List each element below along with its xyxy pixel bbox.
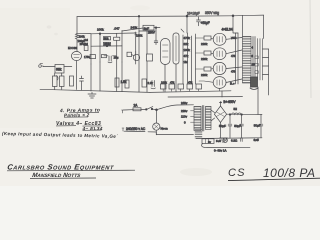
wire: mains live [124,109,134,111]
svg-text:15: 15 [252,62,256,66]
wire: jack hook arrow [57,76,59,81]
svg-text:220k: 220k [201,73,208,77]
wire: V2 stubs [132,51,136,56]
svg-text:6.3Ω: 6.3Ω [231,139,238,143]
capacitor C5 50uF reservoir [187,16,201,33]
resistor R11 4.7k [147,54,153,61]
node: rail junction 2 [232,15,234,17]
capacitor C3 8uF 250V box [143,25,154,30]
resistor R9 500k [114,37,120,40]
svg-text:220k: 220k [201,42,208,46]
scan fold line [310,0,311,98]
transformer T2 heater winding [195,130,202,138]
valve V6 EL34 [213,62,226,74]
wire: coupling vertical x156 [155,28,157,40]
wire: bridge negative to ground [220,122,222,138]
svg-text:.047: .047 [114,27,120,31]
wire: B plus return line [168,96,243,98]
svg-text:100k: 100k [97,28,104,32]
wire: HT centre tap drop [242,15,244,36]
svg-text:175v: 175v [84,55,90,59]
capacitor C4 can [173,33,179,64]
svg-text:470: 470 [231,54,236,58]
svg-text:50μF: 50μF [234,124,241,128]
svg-text:100/8 PA: 100/8 PA [263,166,315,180]
svg-text:ECC83: ECC83 [68,46,77,50]
svg-text:350V wkg: 350V wkg [205,11,219,15]
node: cap drop junction [138,15,140,17]
capacitor C1 cathode bypass [80,76,84,90]
wire: anode bus right [77,32,91,34]
wire: heater drops [226,138,258,142]
svg-text:470: 470 [231,70,236,74]
capacitor C7 50uF vertical [240,115,244,138]
notes handwriting [2,107,118,138]
svg-text:47k: 47k [184,54,189,58]
valve V1 ECC83 input triode [72,51,82,60]
wire: rising lead to primary [157,105,194,110]
svg-text:16+16μF: 16+16μF [187,11,200,15]
terminal: tap lugs [255,56,258,59]
wire: grid network verticals [55,73,62,89]
svg-text:22k: 22k [184,42,189,46]
valve V5 EL34 [213,48,226,60]
resistor R2 68k grid [55,65,64,74]
resistor R8 250k [103,42,110,45]
title: CS 100/8 PA [228,166,315,180]
capacitor C8 coupling [154,40,158,45]
capacitor C2 electrolytic [108,56,112,63]
svg-text:B.+: B.+ [230,82,235,86]
wire: bus vertical D [135,32,137,64]
choke L1 loops [232,113,242,114]
svg-text:6+5: 6+5 [216,139,221,143]
capacitor C9 bypass [151,81,155,89]
svg-text:25μ: 25μ [114,55,119,59]
fuse F1 2A [133,108,141,111]
wire: left ground rail [40,89,150,92]
svg-text:110v: 110v [181,115,188,119]
resistor R16 bias row [196,84,202,89]
output jack block [250,77,258,90]
transformer T2 secondary [206,107,212,128]
resistor R10 1.5k [115,78,119,87]
svg-text:250k: 250k [104,42,111,46]
heater lamp symbol [223,138,227,142]
transformer T1 secondary [258,39,263,81]
resistor R4 [60,76,65,87]
svg-text:220k: 220k [136,33,143,37]
svg-text:50k: 50k [104,37,109,41]
wire: bridge top stub [220,102,222,107]
svg-text:0- 63v 1A: 0- 63v 1A [214,148,226,152]
wire: bridge plus out [227,113,262,115]
capacitor C6 50uF vertical [228,115,232,138]
wire: mains neutral [124,131,194,135]
resistor R15 bias row [187,84,193,89]
resistor R21 mid band [125,80,129,88]
wire: bus vertical B [116,34,118,59]
capacitor C10 50uF vertical [259,115,263,138]
svg-text:240/250 v AC: 240/250 v AC [126,127,146,131]
wire: grid links [196,38,214,82]
wire: ground rail right section [150,91,231,93]
title: Carlsbro Sound Equipment [7,163,115,179]
transformer T1 output primary [243,37,252,83]
wire: drop to ground [139,32,147,92]
wire: stage link [139,30,155,32]
svg-text:6vΦ: 6vΦ [254,138,260,142]
resistor R9b [90,55,96,59]
heater terminal block A [202,139,214,144]
wire: HT secondary to bridge [211,110,215,121]
resistor R13 bias row [169,84,175,89]
valve V2 triode circle [133,54,139,60]
wire: transformer to PSU vertical [257,87,259,114]
wire: output line down [268,49,270,95]
resistor R3 [53,76,58,87]
resistor R9d [127,52,132,56]
wire: vol pot drop [99,34,101,62]
resistor R17 grid stopper [204,36,211,40]
wire: anode to valve [76,39,78,51]
ground: main chevron [88,94,96,98]
transformer T2 mains primary [194,107,201,129]
wire: splitter verticals [165,33,196,92]
wire: HT side drop [263,15,265,38]
wire: fuse to switch [141,108,146,110]
input jack J1 [39,65,42,68]
wire: tap stubs [191,111,195,122]
wire: rail drop right [233,16,238,33]
svg-text:240v: 240v [181,101,188,105]
potentiometer VR1 [84,46,88,51]
svg-text:220k: 220k [201,57,208,61]
svg-text:2.2k: 2.2k [148,81,154,85]
svg-text:Neon: Neon [161,126,169,130]
wire: B+ top rail [77,15,264,17]
resistor R14 bias row [178,84,184,89]
resistor R19 grid stopper [204,67,211,71]
resistor R1 100k anode load zigzag [75,34,78,40]
wire: secondary taps [263,49,269,75]
wire: coupling bus horizontal y46 [91,45,122,47]
rectifier BR1 bridge [214,106,226,122]
switch SW1 [146,109,148,111]
wire: link top [122,16,160,31]
transformer T1 core [253,37,255,84]
resistor R18 grid stopper [204,51,211,55]
mains terminal N [122,128,124,131]
wire: PSU bottom rail [196,137,262,140]
wire: slash mark [181,29,184,32]
svg-text:220v: 220v [181,109,188,113]
neon NE1 pilot [156,110,158,123]
wire: second stage drop [146,31,148,54]
ground: PSU chevron [220,138,228,142]
wire: V1 anode feed drop [76,17,78,34]
mains terminal L [122,110,124,113]
wire: heater hook and bus [202,143,250,147]
resistor R7 50k [103,37,110,40]
valve V4 EL34 [213,33,226,45]
age smudges [180,168,212,176]
wire: bias row stubs [163,88,219,91]
wire: coupling line [104,55,116,57]
svg-text:68k: 68k [56,68,62,72]
wire: V1 grid line [43,66,72,68]
resistor R9c [101,55,106,58]
underline: notes [56,112,102,130]
valve V3 ECC83 phase splitter [161,39,171,65]
wire: V1 cathode drop [76,61,78,90]
wire: switch to junction [153,108,157,110]
svg-text:5H: 5H [234,107,237,111]
svg-text:4– EL34: 4– EL34 [82,126,103,132]
svg-text:100k: 100k [184,48,191,52]
svg-text:470k: 470k [184,36,191,40]
wire: bus vertical C [121,31,123,63]
wire: coupling bus horizontal y34 [91,32,136,35]
svg-text:→ B+455V: → B+455V [219,100,236,104]
resistor R22 mid band [142,79,147,87]
svg-text:1.5k: 1.5k [121,80,127,84]
node: rail junction 1 [186,15,188,17]
wire: mid verticals to ground [91,58,122,92]
paper background [0,0,320,186]
svg-text:4×EL34: 4×EL34 [222,27,233,31]
svg-text:50μF: 50μF [219,124,226,128]
svg-text:1M: 1M [184,60,189,64]
svg-text:+50μF: +50μF [201,21,210,25]
resistor R12 bias row [161,84,167,89]
junction X mark [135,33,138,36]
wire: coupling bus vertical A [90,34,92,64]
wire: anode connections [226,38,242,83]
valve V7 EL34 [213,77,226,89]
underline: drawing number [228,178,320,180]
wire: screen bus [236,33,239,84]
svg-text:50μF: 50μF [254,124,261,128]
svg-text:CS: CS [228,167,246,179]
node: bus dots [99,33,101,35]
underline: title [7,170,135,178]
wire: B+ risers [221,91,223,97]
transformer T2 core [202,106,204,132]
node: cap junctions [229,114,231,116]
resistor R5 cathode [70,76,74,86]
